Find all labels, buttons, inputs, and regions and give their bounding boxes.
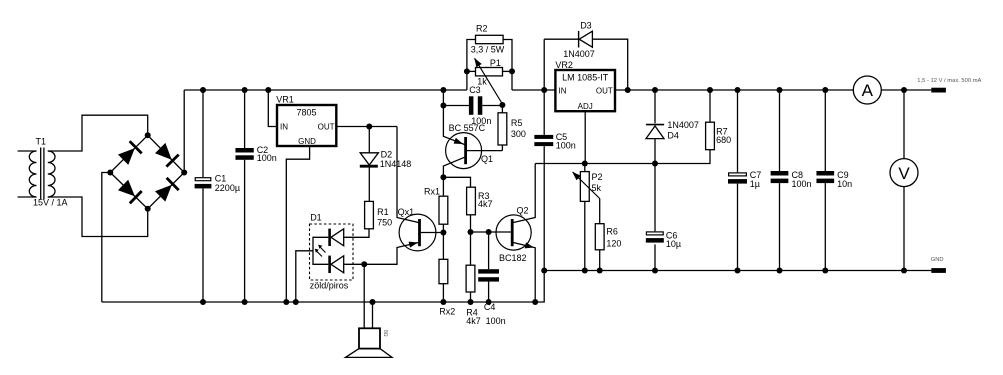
wire C9 top [824, 90, 826, 171]
junction LED ground [293, 299, 299, 305]
svg-text:R1: R1 [377, 207, 389, 217]
wire D2 anode [368, 127, 370, 153]
wire Q1 collector [443, 157, 465, 178]
output terminal gnd [931, 268, 946, 273]
resistor Rx2 [439, 259, 448, 283]
junction P1 left [464, 68, 470, 74]
wire C3 left [443, 105, 469, 107]
resistor R2 3,3/5W [476, 35, 504, 43]
junction C2 top bus [242, 87, 248, 93]
capacitor C9 [816, 171, 834, 176]
junction Qx1 base node [440, 230, 446, 236]
wire C7 bottom [737, 184, 739, 271]
junction bridge bottom [145, 206, 151, 212]
svg-text:100n: 100n [556, 140, 576, 150]
svg-text:OUT: OUT [318, 123, 335, 132]
svg-text:1N4148: 1N4148 [380, 159, 412, 169]
junction C6 ground [652, 268, 658, 274]
resistor R6 120 [595, 224, 604, 250]
potentiometer P2 5k [580, 172, 589, 202]
svg-text:P2: P2 [592, 172, 603, 182]
wire R2 P1 right leg [503, 40, 512, 91]
wire R4 column [470, 232, 472, 265]
junction D4 adj [652, 161, 658, 167]
wire bridge plus to top bus [183, 90, 185, 173]
svg-text:680: 680 [716, 135, 731, 145]
wire C7 top [737, 90, 739, 172]
wire V top [903, 90, 905, 159]
wire C3 right [482, 105, 502, 107]
svg-text:100n: 100n [486, 316, 506, 326]
output terminal plus [931, 88, 946, 93]
wire after ammeter to terminal [881, 89, 931, 91]
regulator U VR2 LM1085 box [555, 70, 615, 111]
wire VR1 GND to ground [286, 146, 309, 302]
junction C1 top bus [200, 87, 206, 93]
wire R2 P1 left leg [467, 40, 476, 91]
junction VR2 IN node [541, 87, 547, 93]
svg-text:BC182: BC182 [499, 253, 527, 263]
svg-text:Rx2: Rx2 [439, 307, 455, 317]
LED block D1 dashed box [310, 224, 354, 280]
diode D2 1N4148 [360, 153, 378, 165]
junction R4 ground [468, 299, 474, 305]
svg-text:1N4007: 1N4007 [667, 120, 699, 130]
wire top bus right section [615, 89, 853, 91]
wire Q2 collector [512, 164, 535, 223]
svg-text:T1: T1 [36, 137, 47, 147]
resistor R1 750 [365, 201, 374, 228]
junction Q1 collector [440, 174, 446, 180]
svg-text:5k: 5k [592, 183, 602, 193]
wire Qx1 emitter [364, 242, 419, 264]
wire Q1 base [467, 150, 502, 152]
wire V bottom [903, 187, 905, 271]
svg-text:C3: C3 [469, 85, 481, 95]
wire D3 loop left [543, 39, 545, 90]
svg-text:1N4007: 1N4007 [563, 49, 595, 59]
wire bridge minus to ground bus [102, 173, 111, 303]
wire C8 top [779, 90, 781, 171]
junction VR1 GND ground [283, 299, 289, 305]
svg-text:100n: 100n [792, 179, 812, 189]
capacitor C3 [469, 96, 474, 115]
wire D2 cathode to R1 [368, 168, 370, 202]
junction C3 left [440, 103, 446, 109]
wire P2 bottom [584, 201, 586, 270]
bridge diode bottom-left [118, 180, 135, 197]
bridge diode top-right [155, 143, 172, 160]
junction D4 bus [652, 87, 658, 93]
wire Rx2 column [442, 233, 444, 260]
junction Rx2 ground [440, 299, 446, 305]
junction C2 ground [242, 299, 248, 305]
svg-text:Qx1: Qx1 [398, 207, 415, 217]
junction C7 bus [735, 87, 741, 93]
junction Q2 emitter ground [532, 299, 538, 305]
transistor Qx1 [399, 214, 436, 251]
voltmeter V [890, 159, 918, 187]
wire P1 left [467, 70, 476, 72]
capacitor C6 [646, 232, 663, 235]
wire LED cathodes join [313, 237, 328, 264]
transistor Q2 BC182 [496, 215, 531, 250]
transistor Q1 BC557C [446, 133, 482, 169]
speaker LS1 [359, 328, 380, 348]
svg-text:R2: R2 [476, 24, 488, 34]
svg-text:VR1: VR1 [276, 95, 294, 105]
wire Qx1 collector [397, 127, 420, 223]
junction P2 top [582, 161, 588, 167]
svg-text:2200µ: 2200µ [215, 183, 240, 193]
junction VR1 IN bus [265, 87, 271, 93]
wire VR1 OUT [336, 126, 397, 128]
wire P2 wiper to R6 [599, 199, 601, 224]
wire R7 top [709, 90, 711, 122]
wire P1 right [503, 70, 513, 72]
bridge diode top-left [118, 148, 135, 165]
wire ADJ line [584, 111, 586, 163]
svg-text:3,3 / 5W: 3,3 / 5W [471, 45, 505, 55]
wire primary bottom [18, 196, 37, 198]
junction C7 ground [735, 268, 741, 274]
ammeter A [853, 76, 881, 104]
wire Q2 emitter [512, 242, 535, 302]
potentiometer P1 1k [476, 68, 503, 76]
svg-text:IN: IN [280, 123, 288, 132]
wire P2 top leg [584, 164, 586, 172]
wire Qx1 base [421, 232, 444, 234]
wire C9 bottom [824, 183, 826, 270]
wire Rx1 bottom [442, 224, 444, 232]
junction C8 ground [777, 268, 783, 274]
wire R5 bottom [501, 145, 503, 151]
regulator U VR1 7805 box [277, 105, 336, 146]
capacitor C5 [534, 135, 553, 139]
svg-text:Q1: Q1 [481, 154, 493, 164]
junction V ground [901, 268, 907, 274]
junction V branch [901, 87, 907, 93]
svg-text:10n: 10n [837, 179, 852, 189]
junction C9 ground [822, 268, 828, 274]
svg-text:750: 750 [377, 218, 392, 228]
capacitor C4 [478, 269, 499, 273]
svg-text:1µ: 1µ [750, 179, 760, 189]
resistor Rx1 [439, 196, 448, 224]
wire ground bus [102, 271, 932, 303]
diode D4 1N4007 [646, 124, 664, 126]
svg-text:100n: 100n [257, 153, 277, 163]
wire secondary top to bridge AC1 [48, 115, 148, 151]
wire C5 top [543, 90, 545, 135]
svg-text:R6: R6 [606, 227, 618, 237]
svg-text:10µ: 10µ [666, 239, 681, 249]
resistor R4 4k7 [466, 265, 475, 292]
LED D1a [328, 229, 331, 246]
junction bridge left [107, 170, 113, 176]
transformer T1 [29, 137, 67, 208]
svg-text:D1: D1 [310, 213, 322, 223]
wire speaker left [363, 264, 365, 328]
wire Rx1 top [442, 177, 444, 196]
wire Q1 emitter column [443, 90, 464, 145]
wire Q1 collector to R3 [443, 177, 470, 187]
svg-text:Rx1: Rx1 [424, 187, 440, 197]
svg-text:A: A [862, 81, 874, 100]
junction C5 ground step [541, 268, 547, 274]
wire C6 top [654, 164, 656, 232]
wire speaker right [372, 302, 374, 328]
wire top bus middle section [512, 89, 555, 91]
svg-text:GND: GND [931, 257, 944, 263]
svg-text:V: V [898, 164, 910, 183]
wire secondary bottom to bridge AC2 [48, 197, 148, 237]
svg-text:100n: 100n [471, 116, 491, 126]
junction R6 ground [597, 268, 603, 274]
junction R7 bus [707, 87, 713, 93]
junction C1 ground [200, 299, 206, 305]
junction C8 bus [777, 87, 783, 93]
wire top bus left section [184, 89, 467, 91]
svg-text:D3: D3 [580, 20, 592, 30]
wire C5 bottom [543, 146, 545, 270]
junction C4 ground [486, 299, 492, 305]
resistor R3 4k7 [467, 187, 476, 215]
svg-text:1k: 1k [477, 76, 487, 86]
wire R3 bottom [470, 215, 472, 232]
svg-text:8Ω: 8Ω [382, 330, 388, 337]
diode D3 1N4007 [578, 31, 580, 48]
junction R3 R4 node [468, 229, 474, 235]
svg-text:Q2: Q2 [517, 206, 529, 216]
svg-text:15V / 1A: 15V / 1A [33, 198, 68, 208]
resistor R7 680 [706, 122, 715, 150]
wire Q2 base line [471, 231, 511, 233]
wire C8 bottom [779, 183, 781, 270]
junction Q1 bus [440, 87, 446, 93]
wire C4 bottom [488, 282, 490, 302]
bridge diamond wires [110, 135, 184, 209]
svg-text:120: 120 [606, 238, 621, 248]
svg-text:IN: IN [559, 87, 567, 96]
svg-text:ADJ: ADJ [578, 102, 593, 111]
svg-text:7805: 7805 [296, 108, 316, 118]
capacitor C7 [729, 173, 747, 176]
junction P2 ground [582, 268, 588, 274]
wire VR1 IN [268, 90, 277, 127]
junction bridge right [181, 170, 187, 176]
svg-text:P1: P1 [490, 58, 501, 68]
svg-text:OUT: OUT [596, 87, 613, 96]
wire R1 bottom to LED1 [344, 229, 369, 238]
wire C1 bottom [202, 188, 204, 302]
junction C4 top [486, 229, 492, 235]
svg-text:zöld/piros: zöld/piros [310, 281, 349, 291]
svg-text:GND: GND [298, 137, 316, 146]
wire R5 top [501, 105, 503, 113]
wire D4 bottom [654, 139, 656, 164]
resistor R5 300 [498, 113, 507, 145]
wire C1 top [202, 90, 204, 177]
svg-text:D4: D4 [667, 130, 679, 140]
capacitor C8 [771, 171, 789, 176]
junction D3 out [625, 87, 631, 93]
capacitor C2 [235, 148, 253, 153]
svg-text:300: 300 [511, 129, 526, 139]
wire R6 bottom [599, 250, 601, 271]
LED arrows [316, 247, 326, 257]
svg-text:1,5 - 12 V / max. 500 mA: 1,5 - 12 V / max. 500 mA [917, 78, 981, 84]
capacitor C1 [195, 178, 211, 181]
junction C3 R5 wiper [499, 102, 505, 108]
bridge diode bottom-right [155, 185, 172, 202]
wire D4 top [654, 90, 656, 123]
svg-text:VR2: VR2 [555, 60, 573, 70]
junction P1 right [509, 68, 515, 74]
LED D1b [328, 256, 331, 273]
junction bridge top [145, 132, 151, 138]
svg-text:4k7: 4k7 [466, 316, 481, 326]
junction VR1 OUT D2 [366, 124, 372, 130]
wire C4 top [488, 232, 490, 269]
wire primary top [18, 150, 37, 152]
wire D3 loop right [592, 39, 627, 90]
wire LED2 to node [344, 263, 365, 265]
junction speaker node [361, 261, 367, 267]
wire C2 top [244, 90, 246, 148]
wire C6 bottom [654, 244, 656, 270]
wire C2 bottom [244, 160, 246, 302]
junction C9 bus [822, 87, 828, 93]
svg-text:R5: R5 [511, 118, 523, 128]
svg-text:4k7: 4k7 [478, 199, 493, 209]
junction speaker ground [370, 299, 376, 305]
svg-text:LM 1085-IT: LM 1085-IT [562, 73, 609, 83]
wire LED common to ground [296, 251, 313, 302]
